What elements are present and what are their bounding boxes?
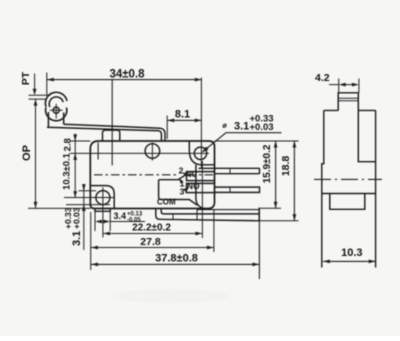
svg-text:+0.03: +0.03 (72, 207, 82, 229)
svg-text:37.8±0.8: 37.8±0.8 (155, 253, 198, 265)
top-right hole pocket (189, 141, 214, 165)
bottom-left hole horizontal centerline (64, 197, 115, 199)
svg-text:3.1: 3.1 (234, 121, 249, 133)
svg-text:NO: NO (187, 181, 200, 191)
NO contact tab (187, 183, 215, 192)
dia 3.1 bottom hole bottom extension (66, 204, 110, 206)
body top right extension (215, 140, 299, 142)
svg-text:3.1: 3.1 (71, 231, 83, 246)
dim 10.3 vertical line (74, 141, 76, 198)
svg-text:2.8: 2.8 (63, 138, 74, 151)
terminal bottom right extension (259, 220, 298, 222)
dim 27.8 left extension (90, 212, 92, 270)
lever bracket right side (63, 113, 65, 125)
NO terminal tick (229, 187, 231, 192)
dim 34 line (47, 79, 202, 81)
dia 3.1 bottom text (63, 207, 83, 246)
svg-text:3.4: 3.4 (114, 211, 127, 221)
side view plunger ridge 2 (338, 100, 358, 102)
svg-text:10.3±0.1: 10.3±0.1 (62, 152, 73, 190)
dim 22.2 line (103, 233, 202, 235)
svg-text:8.1: 8.1 (175, 108, 190, 120)
dim 10.3 side line (323, 260, 376, 262)
COM terminal end cap (258, 208, 260, 221)
side view top edge (324, 109, 376, 111)
bottom boss (95, 209, 110, 212)
PT dim line and arrow (34, 74, 36, 90)
lever hook inner (159, 131, 161, 141)
NO terminal (215, 187, 260, 192)
svg-text:10.3: 10.3 (341, 247, 362, 259)
side view bottom block (330, 194, 365, 210)
dim 37.8 line (91, 263, 259, 265)
svg-text:22.2±0.2: 22.2±0.2 (132, 222, 171, 233)
body top left extension (70, 140, 90, 142)
dim 37.8 right extension (258, 209, 260, 279)
side view internal step (358, 110, 375, 161)
lever strip bottom (47, 127, 159, 131)
svg-text:OP: OP (21, 145, 33, 161)
plunger stem extension line (111, 80, 113, 165)
OP bottom extension (28, 207, 91, 209)
bottom-left hole vertical centerline (102, 187, 104, 237)
NC contact tab (187, 172, 215, 181)
lever bracket left side (47, 112, 49, 127)
dim 2.8 lower arrow (73, 153, 77, 160)
terminal label 2 arrow (183, 173, 187, 175)
lever hook outer (160, 128, 165, 140)
svg-text:34±0.8: 34±0.8 (109, 69, 145, 81)
bottom-left mounting hole (96, 191, 110, 205)
dim 27.8 line (91, 247, 214, 249)
faint scan smudge (112, 289, 228, 303)
svg-text:PT: PT (20, 71, 32, 85)
dim 4.2 arrows (346, 84, 353, 86)
dim 4.2 left extension (338, 79, 340, 94)
COM terminal tick 2 (196, 210, 198, 220)
bottom-left hole pocket (90, 186, 114, 209)
svg-text:NC: NC (186, 170, 198, 179)
top-center circle (145, 144, 160, 159)
svg-text:4.2: 4.2 (315, 72, 330, 84)
dim 2.8 upper arrow (74, 134, 76, 142)
roller pin horizontal tick (50, 109, 63, 111)
svg-text:+0.03: +0.03 (250, 122, 274, 133)
svg-text:18.8: 18.8 (280, 156, 292, 177)
svg-text:⌀: ⌀ (223, 122, 228, 129)
COM terminal inner edge (161, 209, 259, 214)
svg-text:3: 3 (180, 187, 185, 197)
dim 8.1 line (167, 119, 202, 121)
terminal label 3 arrow (184, 188, 187, 191)
roller (46, 107, 67, 120)
svg-text:COM: COM (157, 198, 176, 207)
plunger hump (103, 130, 120, 141)
terminal top right extension (259, 207, 281, 209)
dim 3.4 left extension (94, 212, 96, 232)
dim 8.1 left extension (166, 116, 168, 140)
dim 15.9 line (275, 141, 277, 208)
dia 3.1 bottom hole top extension (79, 190, 97, 192)
lever curl outer (45, 92, 67, 107)
dim 22.2 right extension (201, 161, 203, 238)
PT upper extension (29, 94, 51, 96)
top-right hole horizontal centerline (70, 152, 209, 154)
contact pocket left and bottom (159, 180, 198, 206)
body centerline dash-dot (94, 174, 177, 176)
COM terminal dimple line (197, 209, 259, 211)
roller pin vertical tick (55, 104, 57, 119)
COM terminal tick 1 (172, 214, 174, 220)
side view lower edge (322, 193, 376, 195)
roller pin (53, 107, 59, 113)
right inner rim (196, 165, 204, 209)
side view centerline dash-dot (314, 178, 382, 180)
side view plunger (338, 93, 358, 111)
top-center circle centerline tick (151, 143, 153, 161)
dim 34 left extension (46, 73, 48, 96)
top-right hole vertical centerline (200, 78, 202, 168)
dia 3.1 top leader (203, 133, 282, 152)
dim 3.4 right extension (109, 212, 111, 232)
svg-text:27.8: 27.8 (140, 236, 161, 248)
svg-text:2: 2 (179, 166, 184, 176)
dim 3.4 arrows (95, 220, 102, 224)
side view plunger ridge 1 (338, 97, 358, 99)
PT lower extension (29, 98, 48, 100)
dim 4.2 leader (329, 84, 339, 86)
switch body outline (90, 141, 214, 209)
dia 3.1 bottom dim line (83, 184, 85, 250)
NC terminal (199, 168, 260, 173)
terminal label 1 arrow (178, 178, 183, 184)
side view left edge (322, 110, 324, 267)
NC terminal tick (229, 168, 231, 173)
top-right mounting hole (194, 147, 206, 159)
lever curl inner (49, 97, 63, 107)
left rib (97, 143, 99, 160)
side view right edge (375, 110, 377, 267)
dim 18.8 line (293, 141, 295, 221)
contact pocket top edge (159, 174, 187, 179)
COM terminal outer edge (156, 209, 259, 221)
svg-text:15.9±0.2: 15.9±0.2 (262, 144, 273, 183)
lever strip top (64, 124, 160, 128)
OP dim line (35, 99, 37, 208)
dim 4.2 right extension (358, 79, 360, 94)
dim 27.8 right extension (213, 210, 215, 252)
